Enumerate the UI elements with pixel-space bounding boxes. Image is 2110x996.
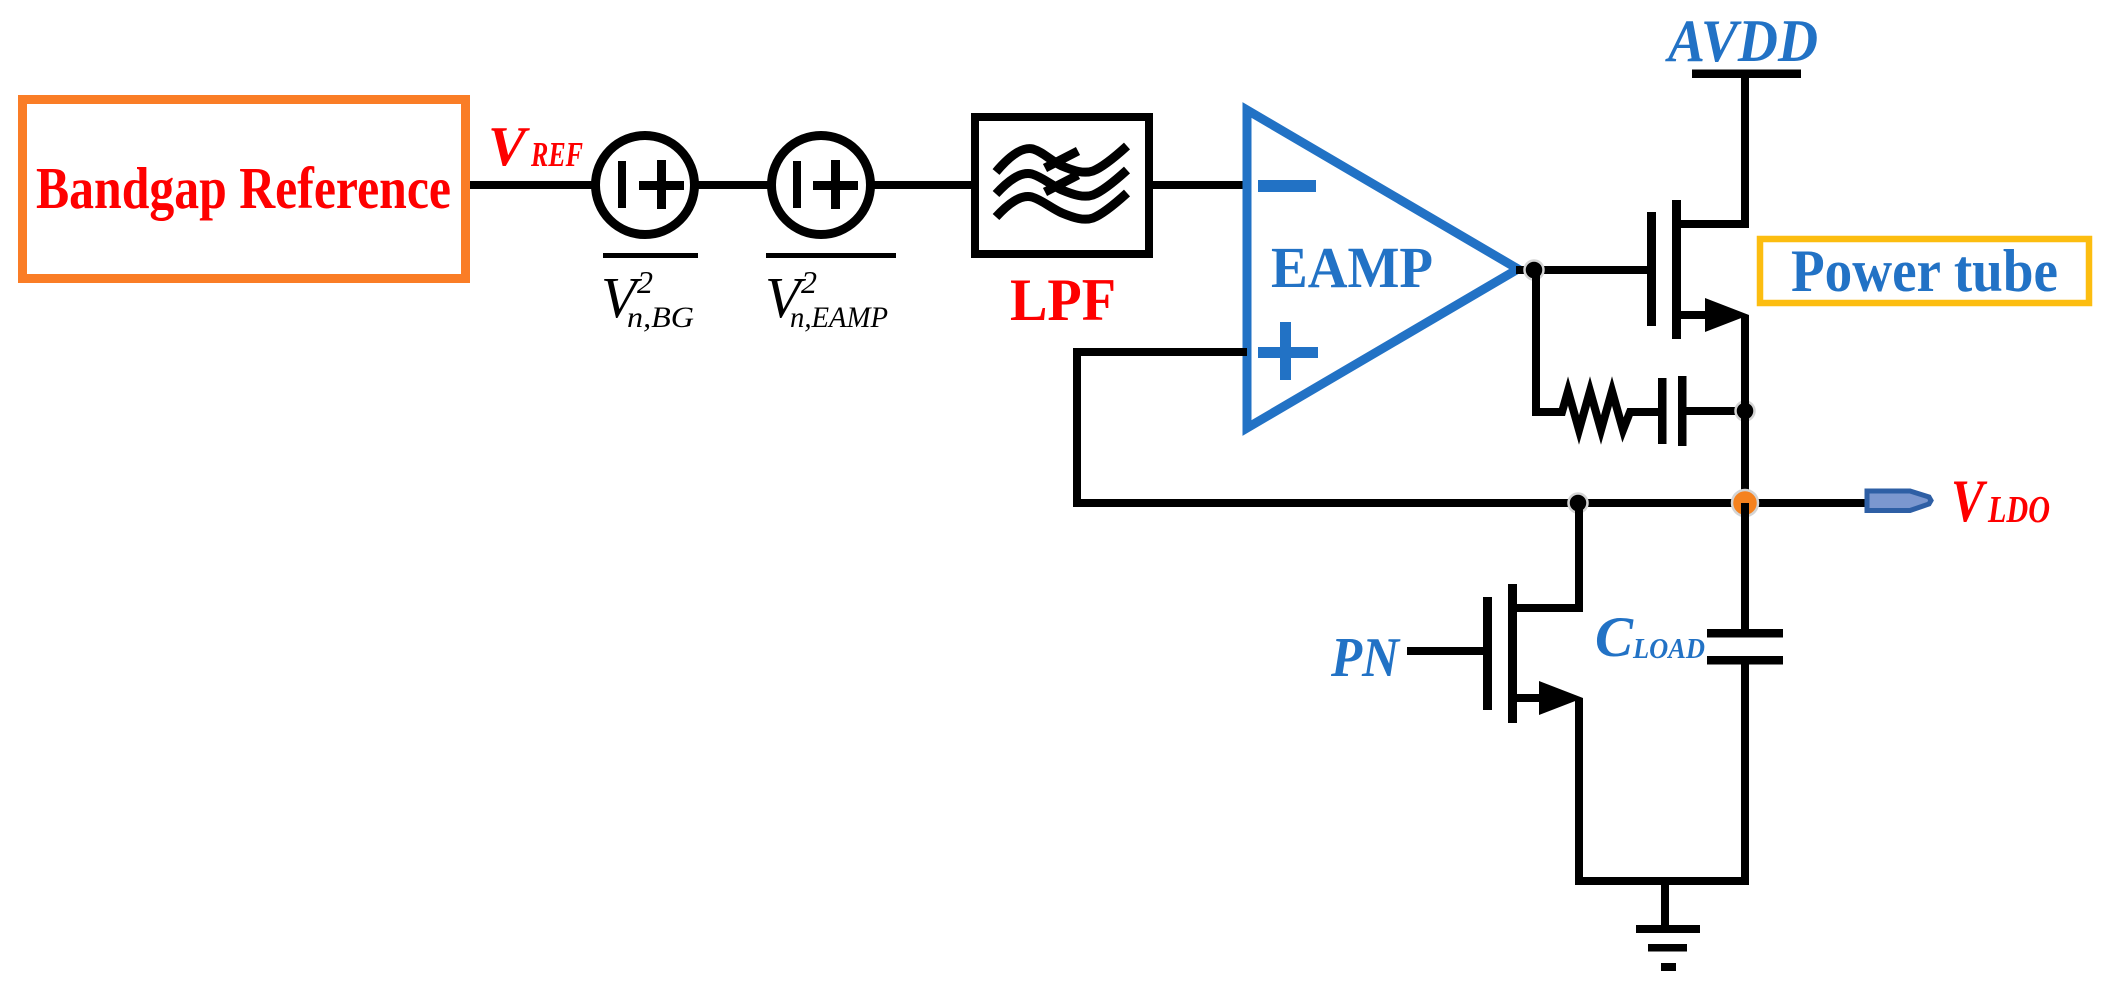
svg-text:V: V (1951, 468, 1988, 534)
op-amp U1 EAMP body (1247, 110, 1518, 428)
svg-text:REF: REF (530, 135, 583, 174)
node VLDO (orange) (1732, 490, 1758, 516)
ground (1636, 881, 1700, 971)
svg-text:n,EAMP: n,EAMP (790, 301, 888, 334)
plus input marker (1258, 322, 1318, 380)
svg-text:LOAD: LOAD (1632, 634, 1705, 665)
capacitor Cc (compensation) (1658, 376, 1746, 446)
minus input marker (1258, 180, 1316, 192)
wire: PN source down to ground rail (1575, 698, 1749, 885)
VLDO output arrow pin (1867, 491, 1931, 511)
wire: PMOS drain down to VLDO node (1741, 315, 1749, 504)
svg-text:Bandgap Reference: Bandgap Reference (36, 155, 451, 221)
svg-text:LDO: LDO (1987, 489, 2050, 531)
wire: noise source 2 to LPF (870, 181, 975, 189)
svg-text:AVDD: AVDD (1664, 8, 1818, 74)
svg-text:PN: PN (1330, 627, 1401, 689)
VLDO label (1951, 468, 2050, 534)
resistor Rc (compensation) (1536, 391, 1658, 430)
wire: junction down to PN drain (1575, 503, 1583, 612)
noise source Vn,EAMP (772, 136, 871, 235)
capacitor CLOAD (1707, 503, 1783, 881)
power tube label box (1760, 238, 2089, 304)
wire: output junction down to compensation branch (1532, 270, 1540, 416)
node: op-amp output junction dot (1525, 261, 1544, 280)
svg-text:LPF: LPF (1010, 267, 1116, 333)
svg-text:C: C (1595, 606, 1634, 669)
svg-text:2: 2 (801, 264, 817, 300)
noise source Vn,BG (596, 136, 695, 235)
feedback wire: plus input to VLDO rail (1073, 348, 1866, 507)
LPF filter box (975, 117, 1149, 254)
bandgap reference box (23, 100, 466, 279)
wire: bandgap to noise source 1 (470, 181, 596, 189)
transistor PN (NMOS) (1407, 584, 1583, 723)
CLOAD label (1595, 606, 1705, 669)
svg-text:Power tube: Power tube (1791, 238, 2058, 304)
node: feedback junction dot (1569, 494, 1588, 513)
node: compensation to output rail junction dot (1736, 402, 1755, 421)
wire: AVDD rail to PMOS source (1692, 70, 1801, 225)
svg-text:EAMP: EAMP (1271, 235, 1433, 300)
wire: noise source 1 to noise source 2 (694, 181, 772, 189)
wire: op-amp output to PMOS gate (1516, 266, 1648, 274)
transistor PMOS power tube (1647, 200, 1749, 339)
svg-text:n,BG: n,BG (627, 301, 694, 334)
value label Vn,BG (601, 253, 698, 334)
wire: LPF to op-amp inverting input (1149, 181, 1249, 189)
svg-text:2: 2 (637, 264, 653, 300)
value label Vn,EAMP (765, 253, 896, 334)
node label VREF (488, 116, 583, 178)
svg-text:V: V (488, 116, 531, 178)
